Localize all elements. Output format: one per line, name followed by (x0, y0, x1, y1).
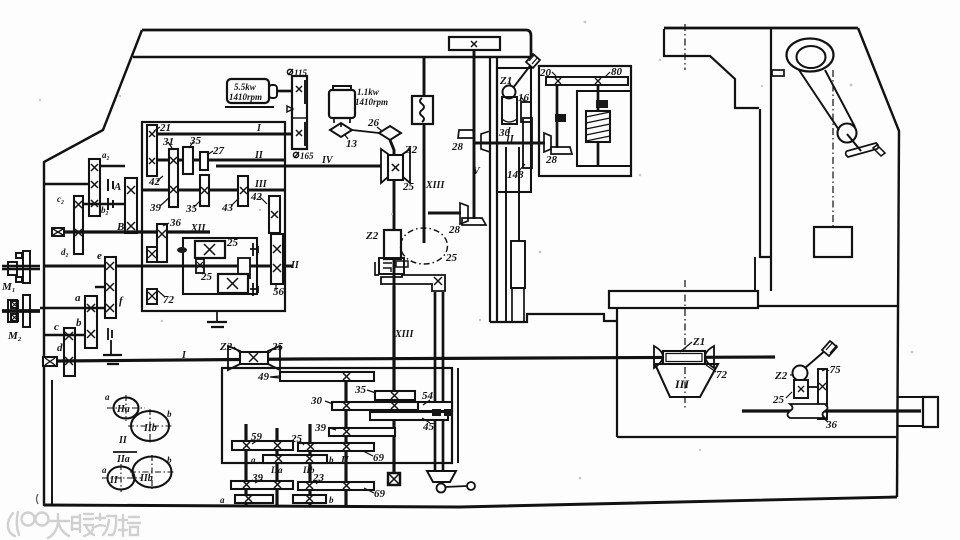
gear 56 bar (271, 234, 283, 284)
shaft I inside (157, 133, 292, 136)
worm wheel dashed circle (401, 228, 448, 264)
leader 30f (325, 401, 333, 404)
svg-text:M₂: M₂ (7, 330, 22, 342)
diamond link (352, 130, 379, 133)
counterweight (814, 227, 852, 257)
svg-text:b₂: b₂ (101, 205, 109, 215)
svg-text:A: A (113, 181, 121, 193)
svg-text:IIb: IIb (143, 423, 157, 434)
shaft M2 line (40, 307, 105, 309)
vertical shaft XIII lower (392, 286, 395, 473)
vertical shaft XIII upper (423, 57, 426, 243)
svg-text:XII: XII (190, 223, 207, 234)
frame left shaft (556, 85, 559, 148)
leader 23g (316, 480, 320, 484)
svg-text:a: a (75, 292, 81, 304)
leader 36h (163, 223, 169, 226)
Z1 cylinder (502, 97, 517, 124)
horizontal shaft to worm wheel (428, 212, 461, 215)
shaft e-f link (95, 286, 105, 288)
bracket x box (434, 277, 442, 285)
svg-text:165: 165 (300, 151, 314, 161)
Z2 bevel right flange (268, 346, 280, 370)
svg-text:49: 49 (257, 371, 270, 383)
svg-text:c: c (54, 321, 59, 333)
vertical shaft pair right (435, 292, 443, 471)
svg-text:II: II (109, 475, 119, 486)
screw end block (923, 397, 938, 427)
column right slant edge (858, 28, 899, 497)
Z1 knob circle (503, 86, 516, 99)
screw coupling wavy (788, 404, 828, 418)
zigzag coupling box (412, 96, 433, 124)
belt arrow (287, 106, 293, 112)
svg-text:IV: IV (321, 155, 334, 166)
Z2 right circle (793, 366, 808, 381)
svg-text:27: 27 (212, 145, 225, 157)
leader 49 (270, 377, 280, 378)
svg-text:72: 72 (716, 369, 728, 381)
frame window (577, 91, 631, 166)
Z2 right gear bar (794, 380, 808, 398)
svg-text:54: 54 (422, 390, 434, 402)
svg-text:II: II (340, 455, 350, 466)
yoke ball (437, 484, 446, 493)
bar dark edge bottom (304, 122, 308, 146)
diff mid bar (238, 258, 250, 278)
yoke link (445, 486, 467, 487)
pair1 small circle (114, 398, 139, 419)
column front lower line (754, 257, 756, 291)
svg-text:IIa: IIa (270, 465, 283, 475)
leader 35f (367, 390, 376, 393)
motor M2 (2, 295, 40, 327)
pair1 crosslines (107, 395, 172, 443)
clamp inner detail (383, 261, 408, 272)
watermark char kua (95, 514, 116, 535)
frame right black box VII (596, 100, 608, 108)
svg-text:Z1: Z1 (692, 336, 705, 348)
headstock ground symbol (207, 322, 227, 327)
zigzag spring (420, 98, 424, 122)
svg-text:Z2: Z2 (219, 341, 233, 353)
bracket plate (381, 275, 445, 291)
small pulley (838, 124, 857, 143)
column front edge inner (770, 29, 772, 291)
saddle lower rod cont (512, 288, 524, 322)
gear bar 45 (370, 412, 448, 420)
Z2 lower gear (384, 230, 401, 259)
svg-text:V: V (473, 166, 481, 177)
svg-text:43: 43 (221, 202, 234, 214)
svg-text:25: 25 (271, 341, 284, 353)
worm Z2 upper body (388, 155, 403, 180)
horizontal shaft VI (474, 142, 545, 145)
leader 80 (605, 72, 610, 77)
worm Z2 upper x (392, 164, 399, 171)
svg-text:42: 42 (148, 176, 161, 188)
vertical shaft XIII-2 (worm shaft) (390, 140, 394, 286)
worm Z1 inner (666, 354, 702, 362)
left body second top line (133, 56, 531, 58)
saddle lower rod right (518, 147, 520, 241)
shaft XII (53, 230, 210, 233)
shaft I long line (57, 357, 775, 361)
svg-text:a: a (220, 495, 225, 505)
gear 36 bar (157, 224, 167, 262)
watermark char da (48, 514, 69, 538)
svg-text:1410rpm: 1410rpm (355, 97, 388, 107)
motor 1.1kw cap (333, 86, 351, 90)
gear 42 right bar (269, 196, 280, 233)
gear bar b2g (293, 495, 326, 503)
svg-text:80: 80 (611, 66, 623, 78)
svg-text:e: e (97, 250, 102, 262)
gear a2 stack bar (89, 159, 100, 216)
clutch diamond 26 (379, 126, 401, 140)
shaft III (142, 189, 285, 192)
shaft II (157, 159, 285, 162)
svg-text:IIa: IIa (116, 404, 130, 415)
shaft XI (44, 265, 293, 268)
watermark char shu (72, 514, 94, 536)
gear 31 bar (169, 149, 178, 207)
leader 31 (168, 142, 172, 148)
leader 43 (231, 198, 239, 206)
shaft c2-B (83, 203, 125, 205)
svg-text:25: 25 (200, 271, 213, 283)
svg-text:56: 56 (273, 286, 285, 298)
worm hatched box (586, 111, 610, 142)
corner tick (37, 494, 39, 504)
saddle lower rod left (505, 147, 507, 322)
gear bar 54 (418, 402, 452, 411)
brake ground bars (103, 355, 122, 364)
svg-text:35: 35 (354, 384, 367, 396)
svg-text:d: d (57, 342, 63, 354)
svg-text:45: 45 (422, 421, 435, 433)
svg-text:b: b (329, 495, 334, 505)
svg-text:d₂: d₂ (61, 247, 69, 257)
svg-text:25: 25 (226, 237, 239, 249)
left body top edge (142, 30, 531, 57)
frame 20/80 outer (539, 66, 631, 176)
pair2 small circle (108, 467, 135, 490)
IIa overbar (113, 451, 137, 453)
link bar (808, 386, 818, 388)
svg-text:b: b (167, 455, 172, 465)
svg-text:39: 39 (149, 202, 162, 214)
x box on shaft XIII bottom (388, 473, 400, 485)
motor 1.1kw base (334, 118, 350, 127)
lead screw (742, 409, 921, 412)
svg-text:I: I (256, 123, 262, 134)
frame right shaft (597, 85, 600, 166)
big pulley outer (787, 39, 834, 72)
left section bottom bracket lines (490, 314, 617, 322)
svg-text:25: 25 (445, 252, 458, 264)
yoke fork (427, 471, 456, 482)
machine bottom edge (44, 497, 897, 507)
svg-text:Z2: Z2 (404, 144, 418, 156)
leader 25r (786, 392, 792, 398)
phi165 dot (293, 152, 298, 157)
leader 35 (189, 142, 193, 148)
worm Z2 upper flange right (403, 149, 410, 183)
leader 42 (157, 176, 163, 181)
svg-text:148: 148 (507, 169, 524, 181)
svg-text:69: 69 (374, 488, 386, 500)
Z2 bevel on shaft I : left flange (228, 346, 240, 370)
gear 72 lower (147, 289, 157, 304)
leader 39g (255, 479, 262, 483)
column notch (772, 70, 784, 76)
svg-text:5.5kw: 5.5kw (234, 82, 257, 92)
gear a/b bar (85, 296, 97, 348)
gear 43 bar (238, 176, 248, 206)
motor coupling tab (269, 85, 277, 98)
bed left edge (616, 308, 618, 437)
bed top edge right (758, 305, 897, 307)
clamp left lug (375, 262, 379, 275)
diff clutch top (250, 243, 258, 256)
svg-text:a: a (105, 392, 110, 402)
leader 59 (252, 440, 258, 444)
svg-text:b: b (167, 409, 172, 419)
bar dark edge top (304, 80, 308, 104)
diff x-box top (195, 241, 225, 258)
pulley bar phi115/165 (292, 76, 307, 149)
leader 45 (422, 418, 430, 423)
column front edge outer (760, 109, 771, 257)
leader 26 (377, 127, 382, 131)
vertical stub shaft 310 (308, 424, 311, 505)
svg-text:b: b (76, 317, 82, 329)
svg-text:a₂: a₂ (102, 150, 110, 160)
gear bar 35f (375, 391, 415, 400)
feed box (222, 368, 452, 463)
headstock box (142, 122, 285, 311)
link ball (467, 482, 475, 490)
svg-text:16: 16 (518, 92, 530, 104)
gear c2/d2 bar (74, 196, 83, 254)
differential box (183, 238, 257, 294)
Z2 bevel gear body (240, 352, 268, 364)
gear A/B bar (125, 178, 137, 233)
svg-text:Z2: Z2 (774, 370, 788, 382)
svg-text:IIa: IIa (116, 454, 130, 465)
watermark char jing (119, 515, 140, 536)
input x-box XII (52, 228, 64, 236)
leader 13 (345, 135, 348, 139)
leader 25f (300, 441, 304, 445)
gear bar 59 (232, 441, 293, 450)
Z2 right lever (805, 349, 827, 368)
svg-text:115: 115 (294, 68, 308, 78)
vertical shaft V (473, 50, 476, 219)
motor M 5.5kw body (227, 79, 269, 103)
shaft I input x-box (43, 357, 57, 366)
belt left (799, 70, 839, 130)
svg-text:28: 28 (448, 224, 461, 236)
leader 30s (508, 127, 510, 133)
saddle box (497, 68, 531, 192)
svg-text:69: 69 (373, 452, 385, 464)
clutch diamond 13 (330, 123, 352, 137)
diff clutch bottom (250, 283, 258, 296)
leader Z2r (790, 374, 794, 376)
worm wheel trapezoid (655, 364, 718, 397)
handle grip (873, 145, 885, 156)
svg-text:25: 25 (290, 433, 303, 445)
leader Z1 (680, 342, 692, 352)
leader 56 (275, 285, 277, 290)
bevel pair top (28) (458, 130, 474, 138)
gear bar 39g (231, 481, 293, 489)
x mark top box (471, 41, 477, 47)
svg-text:III: III (254, 179, 268, 190)
gear bar 39f (329, 428, 395, 436)
pair1 big circle (131, 411, 169, 441)
gear 75 bar (818, 369, 827, 419)
leader Z2 shaftI (234, 347, 240, 353)
vertical stub shaft 246 (244, 424, 247, 505)
lever grip hatched (526, 54, 540, 68)
gear bar ab (263, 455, 327, 463)
svg-text:1.1kw: 1.1kw (357, 87, 380, 97)
leader 49b (270, 376, 280, 377)
motor M1 (2, 251, 40, 283)
counterweight line (832, 70, 834, 227)
shaft IV (216, 165, 381, 168)
svg-text:36: 36 (169, 217, 182, 229)
leader lines (154, 72, 828, 493)
leader 21 (154, 127, 160, 131)
frame top gear bar (546, 77, 628, 85)
clutch A (108, 179, 113, 191)
diff narrow bar (196, 259, 204, 273)
small glyph boxes on pair (432, 409, 441, 416)
leader 54 (423, 400, 430, 405)
svg-text:20: 20 (539, 67, 552, 79)
bevel pair lower (28) (460, 203, 468, 224)
handle crossbar (846, 143, 879, 157)
gear bar a2g (235, 495, 273, 503)
svg-text:b: b (329, 455, 334, 465)
leader 20 (552, 72, 556, 76)
motor base line (225, 106, 274, 108)
pair2 crosslines (102, 455, 174, 492)
column step profile (664, 29, 759, 108)
gear c/d bar (64, 328, 75, 376)
saddle lower rect (511, 241, 525, 288)
leader 16 (521, 97, 525, 102)
rack bar 148 (523, 118, 532, 168)
leader 27 (207, 151, 213, 155)
svg-text:39: 39 (314, 422, 327, 434)
leader 148 (518, 164, 525, 172)
Z2 right grip (822, 341, 837, 356)
svg-text:21: 21 (159, 122, 171, 134)
gear 72 upper (147, 247, 157, 262)
frame left black box VII (555, 114, 566, 122)
svg-text:28: 28 (451, 141, 464, 153)
motor 1.1kw body (329, 90, 355, 118)
svg-text:III: III (674, 377, 690, 391)
bed bottom edge (617, 436, 896, 438)
worm Z2 upper flange left (381, 149, 388, 183)
svg-text:25: 25 (772, 394, 785, 406)
leader 35b (194, 200, 201, 207)
leader 72h (157, 290, 165, 297)
x mark bar bottom (296, 130, 302, 136)
bearing dot (177, 247, 187, 253)
gear bar 30 (332, 402, 420, 410)
gear 16 bar (521, 102, 531, 122)
inner left wall (51, 380, 53, 506)
worm hatch lines (586, 112, 610, 141)
gear bar 25f (298, 443, 374, 451)
svg-text:a: a (102, 465, 107, 475)
gear 21 bar (147, 125, 157, 176)
svg-text:II: II (118, 435, 128, 446)
x mark bar top (296, 86, 302, 92)
worm Z1 right flange (705, 346, 714, 368)
gear 35 top bar (183, 147, 193, 174)
big pulley inner (797, 46, 826, 68)
leader Z1s (509, 81, 511, 86)
svg-text:II: II (254, 150, 264, 161)
pair2 big circle (133, 457, 172, 488)
leader 69b (364, 488, 374, 493)
svg-text:25: 25 (402, 181, 415, 193)
svg-text:II: II (290, 260, 300, 271)
lever to handle (513, 62, 533, 88)
spindle centerline bottom (684, 280, 686, 408)
leader 69a (363, 451, 373, 456)
leader 72 (706, 365, 716, 372)
worm Z1 body (663, 351, 705, 364)
handle stem (847, 134, 861, 151)
diff x-box bottom (218, 274, 248, 293)
leader 39 (160, 197, 170, 206)
watermark logo swirl (8, 512, 19, 536)
svg-text:a: a (251, 455, 256, 465)
svg-text:13: 13 (346, 138, 358, 150)
gear bar 23g (298, 482, 374, 490)
gear 27 bar (200, 152, 208, 170)
screw bracket lines (897, 397, 923, 426)
clutch B (108, 198, 113, 210)
long vertical 497 (496, 57, 498, 322)
spindle centerline top (684, 24, 686, 70)
column top edge (664, 27, 858, 30)
svg-text:XIII: XIII (425, 180, 445, 191)
long vertical 490 (489, 57, 491, 322)
scan specks (39, 21, 914, 480)
clamp housing (379, 258, 404, 274)
worm Z1 left flange (654, 346, 663, 368)
vertical stub shaft 277 (275, 428, 278, 505)
leader 36r (822, 417, 828, 422)
clutch f with brake (108, 328, 112, 355)
shaft a2-A (100, 165, 125, 167)
leader 75 (822, 369, 826, 371)
svg-text:30: 30 (310, 395, 323, 407)
belt right (825, 70, 855, 127)
bevel pair right (28) (544, 133, 551, 152)
shaft c line (44, 334, 85, 336)
